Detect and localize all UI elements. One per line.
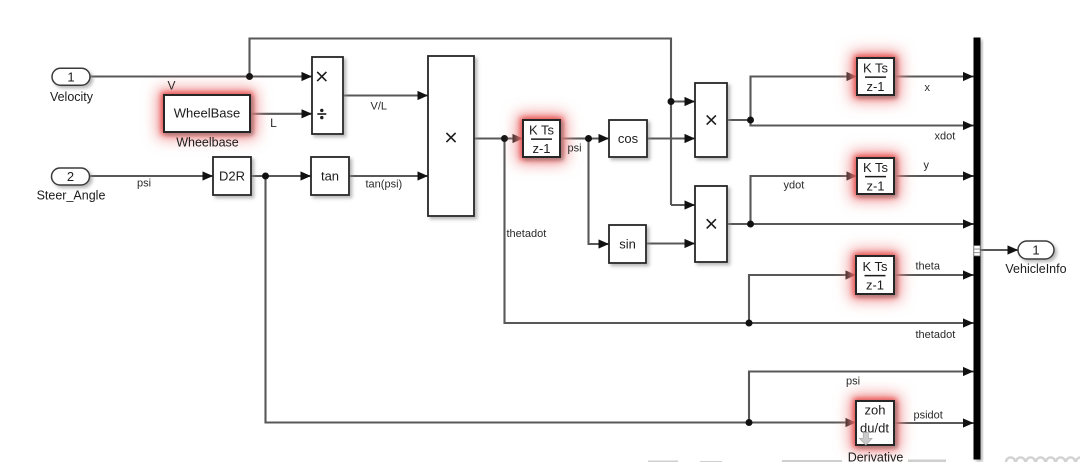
wire cos to Product2 in2 (647, 137, 695, 139)
junction psi bottom (746, 419, 753, 426)
svg-text:V: V (167, 79, 175, 93)
arrow Mux in5 theta (963, 270, 974, 279)
wire Product2 out (727, 119, 751, 121)
discrete integrator theta (highlighted) (850, 250, 900, 300)
arrow Mux in7 psi (963, 367, 974, 376)
wire psidot to Mux in8 (894, 422, 974, 424)
svg-text:L: L (270, 116, 277, 130)
derivative zoh du/dt (highlighted) (850, 395, 900, 451)
wire branch to sin (589, 139, 610, 245)
inport 2 Steer_Angle (52, 168, 90, 185)
wire thetadot branch to theta Integrator (749, 275, 856, 323)
arrow into Product in2 (302, 109, 313, 118)
product Product2 xdot (695, 83, 727, 157)
wire V branch to Product2 in1 (671, 100, 695, 102)
svg-text:K Ts: K Ts (862, 259, 888, 274)
gain D2R (213, 157, 251, 195)
arrow into x Integrator (847, 72, 858, 81)
trig sin (609, 225, 646, 263)
outport 1 VehicleInfo (1018, 241, 1054, 259)
clipped bottom text artifacts (648, 460, 946, 462)
arrow into Product in1 (302, 72, 313, 81)
product Divide x/L (312, 57, 343, 134)
arrow Mux in1 x (963, 72, 974, 81)
svg-text:Velocity: Velocity (50, 90, 94, 104)
wire xdot to Mux in2 (751, 120, 974, 126)
trig cos (609, 120, 647, 157)
arrow into Derivative (846, 418, 857, 427)
wire x to Mux in1 (894, 75, 974, 77)
mux VehicleInfo bus (974, 38, 981, 460)
svg-text:K Ts: K Ts (863, 160, 889, 175)
discrete integrator x (highlighted) (851, 52, 900, 101)
junction V right (668, 98, 675, 105)
svg-text:K Ts: K Ts (529, 122, 555, 137)
svg-text:tan(psi): tan(psi) (366, 179, 403, 191)
constant WheelBase (highlighted) (158, 89, 256, 138)
product Product3 ydot (695, 186, 727, 262)
junction theta out (585, 135, 592, 142)
arrow into Product3 in1 (685, 200, 696, 209)
wire V bypass top (250, 39, 672, 206)
svg-text:theta: theta (916, 261, 941, 273)
svg-text:Derivative: Derivative (848, 451, 904, 462)
junction psi (262, 173, 269, 180)
wire psi down to Derivative (266, 176, 857, 423)
svg-text:VehicleInfo: VehicleInfo (1005, 262, 1066, 276)
svg-text:zoh: zoh (865, 403, 886, 418)
wire sin to Product3 in2 (646, 242, 695, 244)
junction thetadot (501, 135, 508, 142)
svg-text:Wheelbase: Wheelbase (176, 136, 239, 150)
arrow into Product2 in1 (685, 97, 696, 106)
svg-text:sin: sin (619, 237, 636, 252)
svg-text:x: x (925, 82, 931, 94)
svg-text:V/L: V/L (371, 101, 388, 113)
wire ydot up to y Integrator (751, 176, 858, 224)
arrow into y Integrator (847, 171, 858, 180)
svg-text:K Ts: K Ts (863, 60, 889, 75)
svg-text:Steer_Angle: Steer_Angle (37, 189, 106, 203)
wire psi: Inport2 to D2R (89, 175, 213, 177)
arrow Mux in8 psidot (963, 418, 974, 427)
wire psi(theta) to cos (560, 137, 609, 139)
wire Product3 out (727, 223, 751, 225)
wire L: WheelBase to Product in2 (250, 113, 312, 115)
svg-text:z-1: z-1 (866, 79, 884, 94)
svg-text:z-1: z-1 (866, 277, 884, 292)
svg-text:thetadot: thetadot (507, 228, 547, 240)
arrow into tan (301, 171, 312, 180)
arrow into Integrator (513, 134, 524, 143)
svg-text:psidot: psidot (914, 410, 943, 422)
discrete integrator y (highlighted) (851, 152, 900, 200)
inport 1 Velocity (52, 68, 90, 85)
arrow into Product2 in2 (685, 134, 696, 143)
discrete integrator K Ts/z-1 (highlighted) (517, 114, 566, 163)
wire tan(psi) to Product1 in2 (349, 175, 428, 177)
trig tan (311, 157, 349, 195)
junction ydot (747, 221, 754, 228)
wire thetadot to Integrator (474, 137, 523, 139)
svg-text:ydot: ydot (784, 180, 805, 192)
svg-text:y: y (924, 160, 930, 172)
arrow into Product1 in1 (418, 91, 429, 100)
svg-text:2: 2 (67, 169, 74, 184)
arrow into Product3 in2 (685, 239, 696, 248)
wire Mux to Outport (981, 249, 1019, 251)
arrow Mux in3 y (963, 171, 974, 180)
svg-text:tan: tan (321, 169, 339, 184)
svg-text:z-1: z-1 (532, 141, 550, 156)
wire ydot to Mux in4 (751, 223, 974, 225)
svg-text:z-1: z-1 (866, 178, 884, 193)
wire V/L to Product1 in1 (343, 94, 428, 96)
svg-text:cos: cos (618, 131, 639, 146)
wire V branch to Product3 in1 (671, 204, 695, 206)
arrow into theta Integrator (846, 270, 857, 279)
arrow into Product1 in2 (418, 171, 429, 180)
svg-text:psi: psi (137, 178, 151, 190)
svg-text:WheelBase: WheelBase (174, 106, 240, 121)
svg-text:xdot: xdot (935, 131, 956, 143)
svg-text:1: 1 (67, 69, 74, 84)
junction V (246, 73, 253, 80)
arrow into Outport VehicleInfo (1008, 245, 1019, 254)
arrow Mux in2 xdot (963, 121, 974, 130)
arrow into cos (599, 134, 610, 143)
svg-text:thetadot: thetadot (916, 329, 956, 341)
svg-text:1: 1 (1032, 243, 1039, 258)
product Product1 big (428, 56, 474, 216)
wire xdot up to x Integrator (751, 77, 858, 121)
arrow into sin (599, 239, 610, 248)
arrow Mux in4 ydot (963, 219, 974, 228)
wire psi branch to Mux in7 (749, 372, 974, 423)
junction xdot (747, 117, 754, 124)
svg-text:psi: psi (846, 376, 860, 388)
svg-text:D2R: D2R (219, 169, 245, 184)
wire theta to Mux in5 (894, 274, 974, 276)
arrow Mux in6 thetadot (963, 318, 974, 327)
svg-text:psi: psi (568, 143, 582, 155)
wire y to Mux in3 (894, 175, 974, 177)
wire D2R to tan (251, 175, 311, 177)
wire V: Inport1 to Product in1 (90, 75, 312, 77)
wire thetadot down to Mux in6 (505, 139, 974, 324)
junction thetadot right (746, 320, 753, 327)
arrow into D2R (203, 171, 214, 180)
